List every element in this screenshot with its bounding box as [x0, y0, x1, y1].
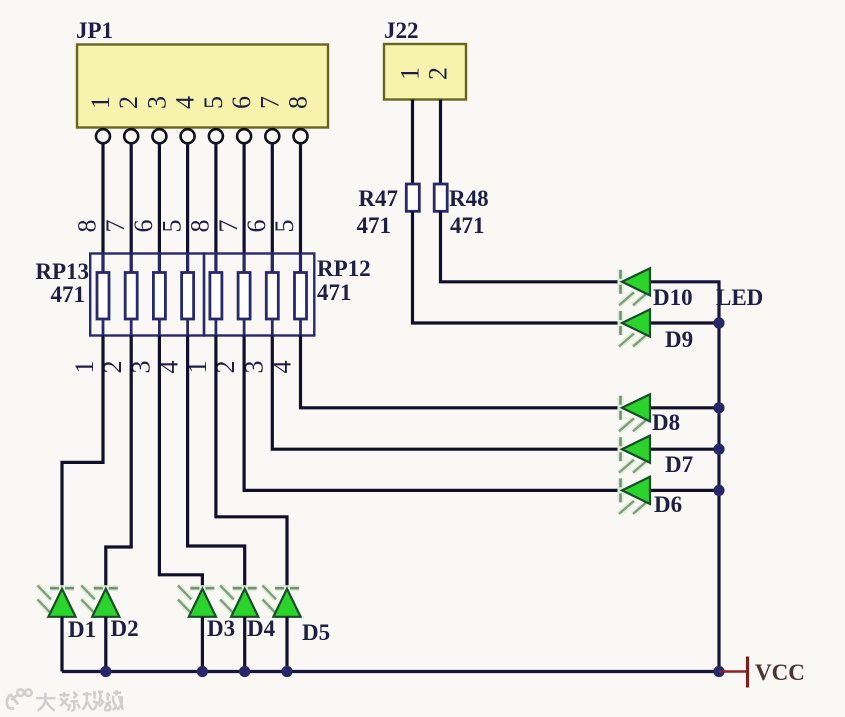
svg-text:D10: D10 [653, 285, 693, 310]
wire RP13.2 to D2 [106, 336, 131, 589]
svg-text:D2: D2 [111, 616, 139, 641]
svg-text:8: 8 [283, 96, 312, 109]
svg-text:D3: D3 [207, 616, 235, 641]
LED D1 [38, 585, 76, 616]
RP12 element 1 leads [214, 254, 217, 336]
power port VCC [719, 657, 805, 688]
svg-text:3: 3 [142, 96, 171, 109]
RP12 resistor element 4 [295, 273, 307, 320]
wire JP1 pin 7 to RP [271, 143, 274, 273]
svg-text:2: 2 [114, 96, 143, 109]
RP12 element 2 leads [243, 254, 246, 336]
LED D10 [619, 268, 650, 305]
svg-text:4: 4 [171, 96, 200, 109]
RP13 element 4 leads [186, 254, 189, 336]
svg-text:JP1: JP1 [76, 18, 113, 43]
svg-text:D8: D8 [652, 410, 680, 435]
RP12 body outline [204, 254, 314, 336]
LED D4 [220, 585, 258, 616]
JP1 pin 7 circle [265, 129, 279, 143]
svg-text:2: 2 [423, 67, 452, 80]
junction D9-bus [713, 317, 724, 328]
wire D8 to bus [650, 406, 719, 409]
wire JP1 pin 8 to RP [299, 143, 302, 273]
wire D7 to bus [650, 448, 719, 451]
svg-text:R48: R48 [449, 186, 489, 211]
svg-text:D9: D9 [665, 327, 693, 352]
svg-text:D6: D6 [654, 492, 682, 517]
svg-text:VCC: VCC [755, 660, 805, 685]
LED D5 [263, 585, 301, 616]
connector JP1 [76, 18, 328, 143]
svg-text:RP12: RP12 [317, 256, 371, 281]
JP1 body [77, 45, 328, 128]
resistor pack RP12 [204, 254, 371, 336]
svg-text:D4: D4 [247, 616, 276, 641]
R47 body [406, 184, 419, 211]
svg-text:5: 5 [199, 96, 228, 109]
LED D9 [619, 309, 650, 346]
junction D7-bus [713, 444, 724, 455]
JP1 pin 8 circle [294, 129, 308, 143]
wire R47 to D9 [413, 211, 623, 323]
RP13 resistor element 4 [182, 273, 194, 320]
svg-text:1: 1 [86, 96, 115, 109]
wire RP13.3 to D3 [159, 336, 202, 589]
wire D2 anode to bottom bus [104, 617, 107, 672]
wire R48 to D10 [441, 211, 623, 281]
wire J22 pin 2 to R48 [439, 100, 442, 185]
wire RP12.3 to D7 [272, 336, 622, 450]
svg-text:6: 6 [242, 220, 271, 233]
wire JP1 pin 6 to RP [243, 143, 246, 273]
resistor pack RP13 [35, 254, 204, 336]
svg-text:5: 5 [270, 220, 299, 233]
R48 body [434, 184, 447, 211]
wire right vertical bus (anode rail) [650, 282, 719, 672]
svg-text:7: 7 [255, 96, 284, 109]
svg-text:LED: LED [716, 285, 763, 310]
VCC stub wire [719, 670, 747, 673]
wire RP12.4 to D8 [301, 336, 623, 408]
svg-text:6: 6 [227, 96, 256, 109]
svg-text:1: 1 [395, 67, 424, 80]
svg-text:8: 8 [186, 220, 215, 233]
J22 body [384, 44, 466, 100]
LED D3 [178, 585, 216, 616]
junction D3-bus [197, 666, 208, 677]
RP13 resistor element 1 [97, 273, 109, 320]
LED D6 [619, 477, 650, 514]
RP12 resistor element 3 [266, 273, 278, 320]
RP12 resistor element 1 [210, 273, 222, 320]
wire D1 anode to bottom bus [60, 617, 63, 672]
RP13 resistor element 3 [153, 273, 165, 320]
svg-text:471: 471 [317, 280, 352, 305]
junction D6-bus [713, 485, 724, 496]
wire J22 pin 1 to R47 [411, 100, 414, 185]
RP13 element 3 leads [158, 254, 161, 336]
wire JP1 pin 2 to RP [130, 143, 133, 273]
RP12 element 4 leads [299, 254, 302, 336]
svg-text:5: 5 [157, 220, 186, 233]
JP1 pin 6 circle [237, 129, 251, 143]
svg-text:471: 471 [51, 282, 86, 307]
svg-text:D5: D5 [302, 620, 330, 645]
wire D4 anode to bottom bus [243, 617, 246, 672]
RP13 element 2 leads [130, 254, 133, 336]
JP1 pin 1 circle [96, 129, 110, 143]
svg-text:471: 471 [450, 213, 485, 238]
wire RP13.1 to D1 [62, 336, 103, 589]
svg-text:6: 6 [129, 220, 158, 233]
svg-text:R47: R47 [358, 186, 398, 211]
RP12 resistor element 2 [238, 273, 250, 320]
wire D9 to bus [650, 321, 719, 324]
svg-text:1: 1 [70, 361, 99, 374]
svg-text:RP13: RP13 [35, 259, 89, 284]
JP1 pin 4 circle [181, 129, 195, 143]
svg-text:8: 8 [73, 220, 102, 233]
LED D8 [619, 394, 650, 431]
wire JP1 pin 1 to RP [101, 143, 104, 273]
RP13 body outline [90, 254, 204, 336]
junction D2-bus [100, 666, 111, 677]
LED D7 [619, 436, 650, 473]
JP1 pin 2 circle [124, 129, 138, 143]
wire JP1 pin 4 to RP [186, 143, 189, 273]
JP1 pin 3 circle [152, 129, 166, 143]
junction D8-bus [713, 402, 724, 413]
wire JP1 pin 5 to RP [214, 143, 217, 273]
resistor R47 [357, 184, 420, 238]
wire RP13.4 to D4 [188, 336, 245, 589]
svg-text:471: 471 [357, 213, 392, 238]
RP13 resistor element 2 [125, 273, 137, 320]
junction VCC-bus [713, 666, 724, 677]
wire D3 anode to bottom bus [201, 617, 204, 672]
junction D4-bus [239, 666, 250, 677]
wire JP1 pin 3 to RP [158, 143, 161, 273]
VCC bar symbol [746, 657, 749, 688]
svg-text:7: 7 [101, 220, 130, 233]
wire D6 to bus [650, 489, 719, 492]
wire RP12.2 to D6 [244, 336, 622, 491]
svg-text:D1: D1 [68, 617, 96, 642]
resistor R48 [434, 184, 488, 238]
RP13 element 1 leads [102, 254, 105, 336]
RP12 element 3 leads [271, 254, 274, 336]
wire D5 anode to bottom bus [285, 617, 288, 672]
LED D2 [81, 585, 119, 616]
svg-text:D7: D7 [665, 452, 693, 477]
connector J22 [384, 18, 466, 100]
svg-text:7: 7 [214, 220, 243, 233]
JP1 pin 5 circle [209, 129, 223, 143]
wire RP12.1 to D5 [216, 336, 287, 589]
wire bottom bus (VCC rail) [62, 670, 719, 673]
watermark (decorative, bottom-left) [7, 689, 123, 710]
junction D5-bus [281, 666, 292, 677]
svg-text:J22: J22 [384, 18, 419, 43]
